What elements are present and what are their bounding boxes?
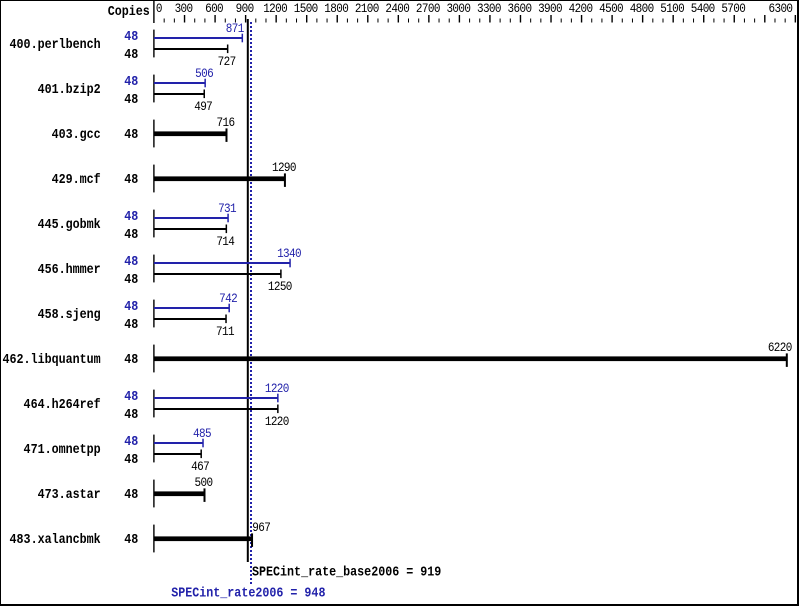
svg-text:716: 716: [217, 115, 235, 130]
svg-text:1250: 1250: [268, 279, 292, 294]
svg-text:1500: 1500: [294, 1, 318, 16]
svg-text:471.omnetpp: 471.omnetpp: [24, 441, 101, 457]
svg-text:403.gcc: 403.gcc: [52, 126, 101, 142]
svg-text:SPECint_rate2006 = 948: SPECint_rate2006 = 948: [171, 584, 325, 600]
svg-text:48: 48: [124, 351, 138, 367]
svg-text:5700: 5700: [721, 1, 745, 16]
benchmark row 473.astar: [38, 475, 213, 507]
svg-text:742: 742: [219, 291, 237, 306]
svg-text:48: 48: [124, 253, 138, 269]
svg-text:3900: 3900: [538, 1, 562, 16]
svg-text:900: 900: [236, 1, 254, 16]
svg-text:506: 506: [195, 66, 213, 81]
svg-text:871: 871: [226, 21, 244, 36]
svg-text:48: 48: [124, 171, 138, 187]
svg-text:4200: 4200: [569, 1, 593, 16]
benchmark row 445.gobmk: [38, 201, 237, 250]
svg-text:48: 48: [124, 271, 138, 287]
svg-text:SPECint_rate_base2006 = 919: SPECint_rate_base2006 = 919: [252, 564, 441, 580]
reference line base result 919 (solid black): [247, 19, 249, 562]
benchmark row 456.hmmer: [38, 246, 302, 295]
svg-text:458.sjeng: 458.sjeng: [38, 306, 101, 322]
axis tick marks: [164, 15, 796, 23]
svg-text:6220: 6220: [768, 340, 792, 355]
svg-text:483.xalancbmk: 483.xalancbmk: [10, 531, 101, 547]
svg-text:48: 48: [124, 46, 138, 62]
svg-text:3600: 3600: [508, 1, 532, 16]
benchmark row 458.sjeng: [38, 291, 238, 340]
svg-text:1220: 1220: [265, 381, 289, 396]
svg-text:429.mcf: 429.mcf: [52, 171, 101, 187]
svg-text:5400: 5400: [691, 1, 715, 16]
svg-text:1200: 1200: [263, 1, 287, 16]
svg-text:3300: 3300: [477, 1, 501, 16]
benchmark row 462.libquantum: [3, 340, 793, 372]
benchmark row 471.omnetpp: [24, 426, 212, 475]
axis tick labels: [156, 1, 793, 16]
svg-text:5100: 5100: [660, 1, 684, 16]
svg-text:400.perlbench: 400.perlbench: [10, 36, 101, 52]
svg-text:714: 714: [216, 234, 234, 249]
svg-text:48: 48: [124, 226, 138, 242]
benchmark row 483.xalancbmk: [10, 520, 271, 552]
svg-text:497: 497: [194, 99, 212, 114]
svg-text:2400: 2400: [385, 1, 409, 16]
svg-text:467: 467: [191, 459, 209, 474]
svg-text:0: 0: [156, 1, 162, 16]
svg-text:731: 731: [218, 201, 236, 216]
svg-text:1220: 1220: [265, 414, 289, 429]
svg-text:500: 500: [195, 475, 213, 490]
svg-text:48: 48: [124, 91, 138, 107]
svg-text:1290: 1290: [272, 160, 296, 175]
svg-text:48: 48: [124, 126, 138, 142]
axis zero line: [153, 0, 154, 23]
svg-text:4800: 4800: [630, 1, 654, 16]
svg-text:48: 48: [124, 486, 138, 502]
benchmark row 403.gcc: [52, 115, 235, 147]
svg-text:464.h264ref: 464.h264ref: [24, 396, 101, 412]
svg-text:967: 967: [252, 520, 270, 535]
svg-text:300: 300: [175, 1, 193, 16]
svg-text:711: 711: [216, 324, 234, 339]
svg-text:2700: 2700: [416, 1, 440, 16]
svg-text:445.gobmk: 445.gobmk: [38, 216, 101, 232]
svg-text:48: 48: [124, 433, 138, 449]
benchmark row 400.perlbench: [10, 21, 244, 70]
svg-text:48: 48: [124, 316, 138, 332]
svg-text:48: 48: [124, 531, 138, 547]
svg-text:473.astar: 473.astar: [38, 486, 101, 502]
svg-text:1340: 1340: [277, 246, 301, 261]
svg-text:Copies: Copies: [108, 3, 150, 19]
border frame: [0, 0, 799, 1]
svg-text:401.bzip2: 401.bzip2: [38, 81, 101, 97]
svg-text:48: 48: [124, 208, 138, 224]
svg-text:2100: 2100: [355, 1, 379, 16]
svg-text:456.hmmer: 456.hmmer: [38, 261, 101, 277]
benchmark row 429.mcf: [52, 160, 297, 192]
reference line peak result 948 (blue dotted): [250, 22, 252, 584]
svg-text:1800: 1800: [324, 1, 348, 16]
svg-text:48: 48: [124, 406, 138, 422]
svg-text:48: 48: [124, 73, 138, 89]
svg-text:4500: 4500: [599, 1, 623, 16]
svg-text:48: 48: [124, 451, 138, 467]
svg-text:485: 485: [193, 426, 211, 441]
svg-text:600: 600: [205, 1, 223, 16]
svg-text:48: 48: [124, 28, 138, 44]
benchmark row 464.h264ref: [24, 381, 290, 430]
svg-text:6300: 6300: [769, 1, 793, 16]
svg-text:48: 48: [124, 298, 138, 314]
benchmark row 401.bzip2: [38, 66, 214, 115]
svg-text:727: 727: [218, 54, 236, 69]
svg-text:462.libquantum: 462.libquantum: [3, 351, 101, 367]
svg-text:3000: 3000: [446, 1, 470, 16]
svg-text:48: 48: [124, 388, 138, 404]
